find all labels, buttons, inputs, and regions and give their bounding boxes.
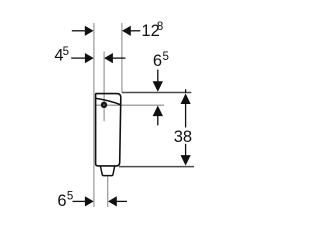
flush valve outlet [101, 167, 115, 176]
dimension 38 tick above top line [185, 89, 187, 93]
dimension 4_5 tail left [71, 57, 86, 59]
dimension 38 line upper [185, 102, 187, 128]
dimension 6_5 bottom arrow left-pointing [108, 196, 117, 206]
dimension 12_8 arrow right-pointing [85, 26, 94, 36]
dimension 6_5 arrow down-pointing [153, 81, 163, 92]
dimension 38 arrow up-pointing [181, 93, 191, 104]
svg-text:38: 38 [174, 128, 192, 146]
dimension 38 arrow down-pointing [181, 155, 191, 166]
reference line bottom level [119, 166, 194, 168]
extension line button axis (x=104) [103, 52, 105, 122]
dimension 4_5 arrow right-pointing [85, 53, 94, 63]
svg-text:5: 5 [63, 46, 69, 58]
dimension 4_5 tail right [113, 57, 126, 59]
dimension 4_5 arrow left-pointing [104, 53, 113, 63]
pipe centre line [107, 177, 109, 208]
dimension 12_8 arrow left-pointing [122, 26, 131, 36]
cistern lid seam diagonal [96, 98, 121, 104]
dimension 6_5 bottom arrow right-pointing [85, 196, 94, 206]
dimension 6_5 top tail lower [157, 115, 159, 125]
dimension 6_5 bottom tail right [117, 200, 128, 202]
dimension 6_5 bottom tail left [73, 200, 87, 202]
dimension 12_8 tail right [131, 30, 141, 32]
dimension 6_5 arrow up-pointing [153, 106, 163, 117]
flush button inner detail [103, 104, 105, 106]
reference line button level [96, 104, 164, 106]
dimension 38 line lower [185, 144, 187, 157]
flush button [101, 102, 107, 108]
svg-text:8: 8 [157, 21, 163, 33]
extension line front (x=122) [121, 23, 123, 93]
svg-text:5: 5 [67, 191, 73, 203]
svg-text:6: 6 [153, 52, 162, 70]
extension line back wall (x=94) [93, 23, 95, 207]
reference line top level [122, 92, 191, 94]
dimension 6_5 top tail upper [157, 70, 159, 82]
svg-text:5: 5 [163, 51, 169, 63]
dimension 12_8 tail left [72, 30, 86, 32]
cistern body outline [96, 94, 121, 166]
svg-text:6: 6 [57, 192, 66, 210]
